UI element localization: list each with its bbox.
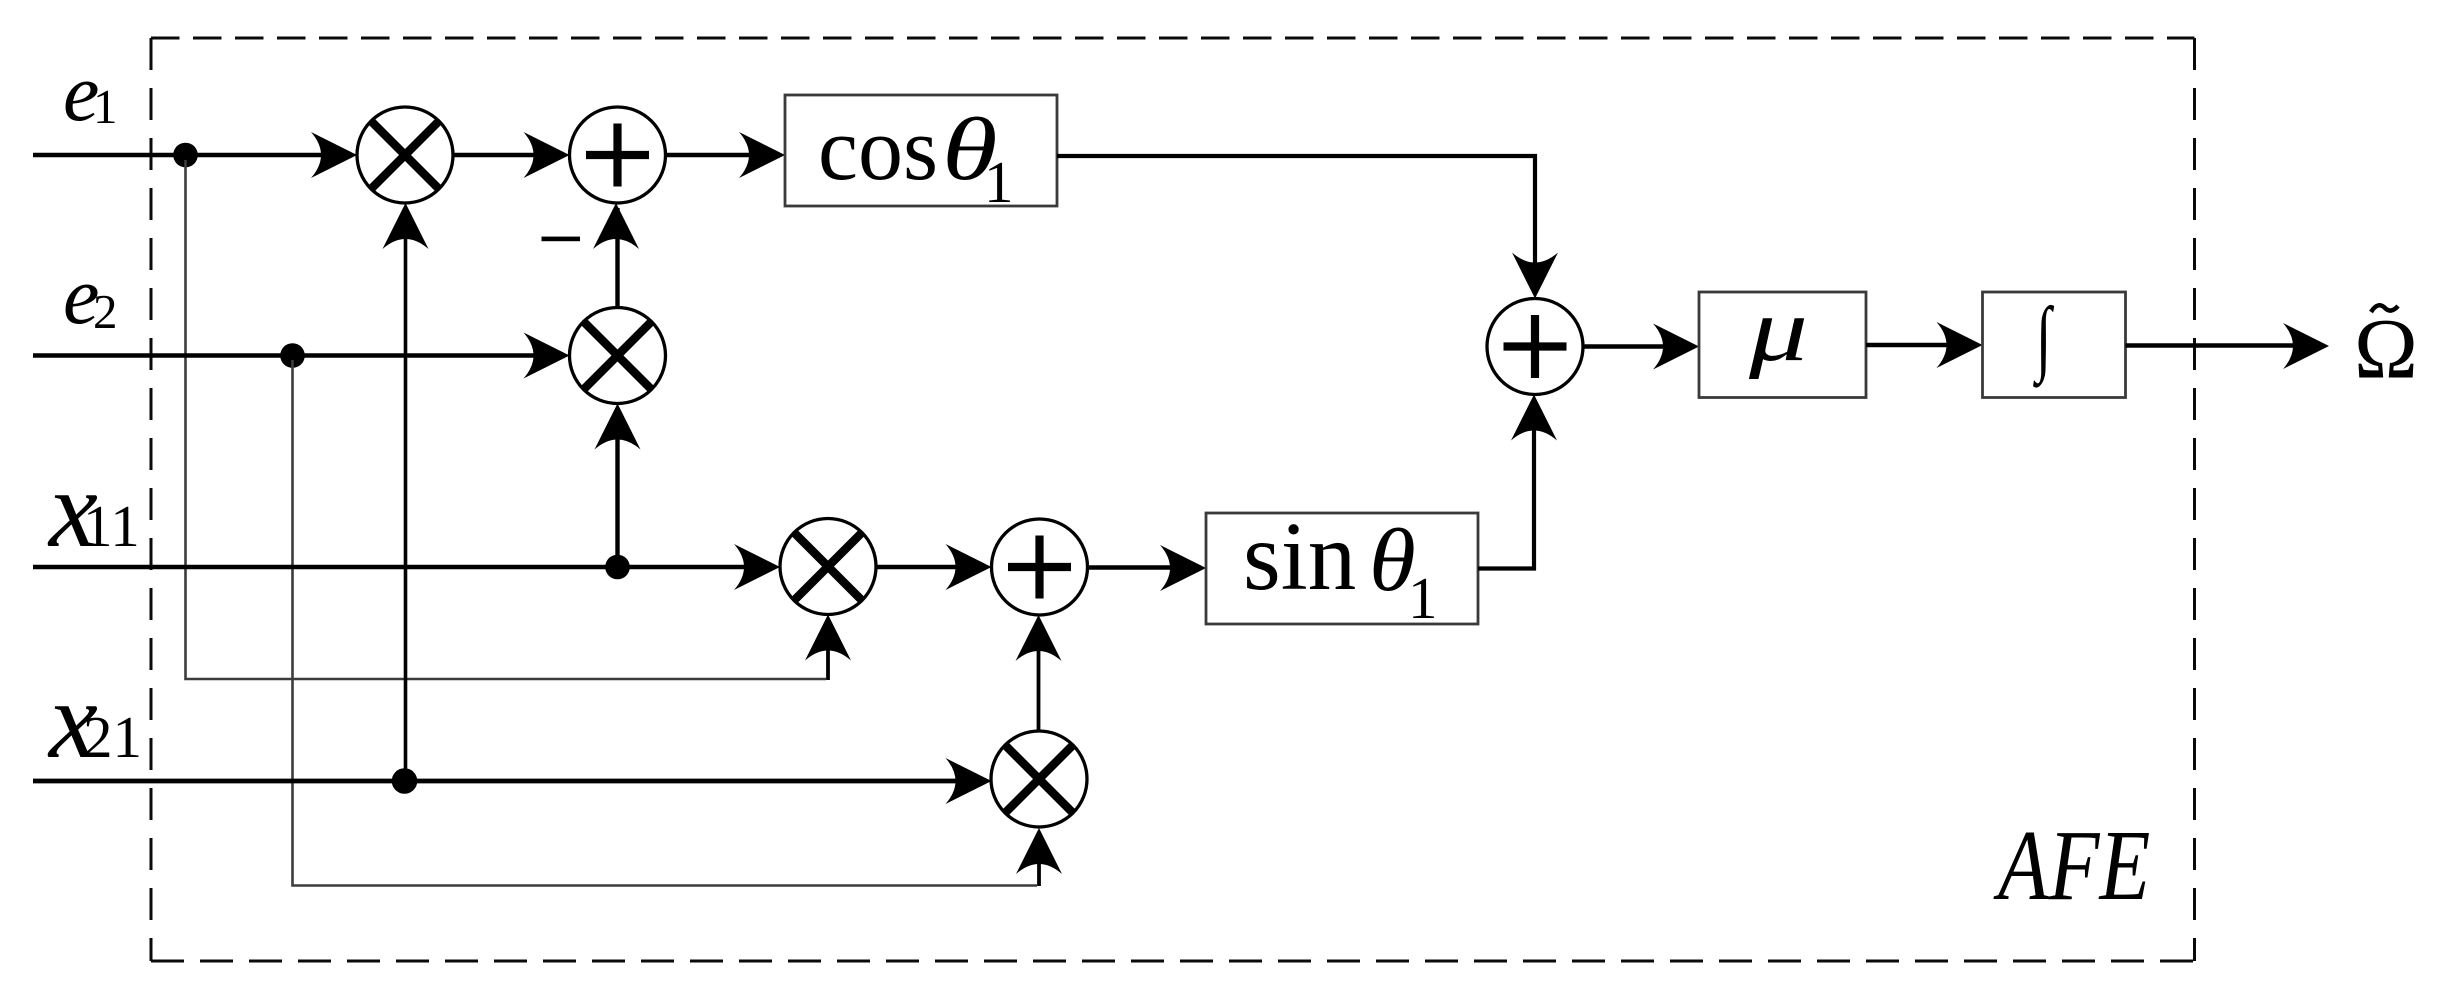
svg-text:2: 2 <box>93 284 118 339</box>
svg-text:1: 1 <box>984 149 1014 215</box>
adder A3 <box>1487 299 1583 395</box>
output label Omega tilde <box>2354 301 2418 397</box>
input label e2 <box>63 250 118 341</box>
node: junction dot on x11 <box>605 555 630 580</box>
svg-text:sin: sin <box>1243 503 1356 610</box>
adder A1 <box>570 107 666 203</box>
wire sin block to adder A3 (right then up) <box>1478 395 1557 569</box>
block cos theta1 <box>785 95 1057 215</box>
svg-text:11: 11 <box>83 493 140 559</box>
wire integrator to output <box>2126 323 2330 369</box>
wire adder A2 to sin block <box>1088 545 1207 591</box>
wire multiplier M4 up to adder A2 <box>1016 615 1062 731</box>
wire multiplier M2 up to adder A1 <box>593 203 639 308</box>
svg-text:1: 1 <box>1408 565 1438 631</box>
input label e1 <box>63 47 118 138</box>
label AFE <box>1993 811 2151 922</box>
wire mu block to integrator block <box>1866 322 1983 368</box>
svg-text:μ: μ <box>1748 280 1808 380</box>
block integrator <box>1983 291 2126 398</box>
minus sign at A1 lower input <box>542 237 581 242</box>
wire multiplier M1 to adder A1 <box>453 132 570 178</box>
wire x11 junction up to multiplier M2 <box>595 404 641 568</box>
wire adder A3 to mu block <box>1583 324 1699 370</box>
input label x11 <box>47 448 140 570</box>
block mu <box>1699 280 1866 397</box>
multiplier M4 <box>991 731 1087 827</box>
wire e2 input to multiplier M2 <box>33 333 570 379</box>
multiplier M2 <box>570 308 666 404</box>
dashed AFE boundary box <box>151 38 2195 961</box>
svg-text:1: 1 <box>93 79 118 134</box>
wire x21 junction up to multiplier M1 <box>383 203 429 781</box>
wire x21 input to multiplier M4 <box>33 758 992 804</box>
node: junction dot on e2 <box>280 343 305 368</box>
wire multiplier M3 to adder A2 <box>876 544 992 590</box>
wire e2 junction down and right to multiplier M4 (feedback) <box>293 360 1063 886</box>
wire e1 junction down and right to multiplier M3 (feedback) <box>186 160 852 680</box>
adder A2 <box>992 519 1088 615</box>
svg-text:21: 21 <box>83 704 142 770</box>
wire e1 input to multiplier M1 <box>33 132 357 178</box>
multiplier M3 <box>780 519 876 615</box>
multiplier M1 <box>357 107 453 203</box>
wire cos block to adder A3 (right then down) <box>1057 156 1558 299</box>
wire x11 input to multiplier M3 <box>33 544 780 590</box>
wire adder A1 to cos block <box>666 132 786 178</box>
block sin theta1 <box>1206 503 1478 631</box>
svg-text:AFE: AFE <box>1993 811 2151 922</box>
node: junction dot on x21 <box>392 768 418 794</box>
svg-text:cos: cos <box>818 100 938 199</box>
svg-text:Ω: Ω <box>2354 301 2418 397</box>
node: junction dot on e1 <box>173 143 198 168</box>
input label x21 <box>47 659 142 781</box>
